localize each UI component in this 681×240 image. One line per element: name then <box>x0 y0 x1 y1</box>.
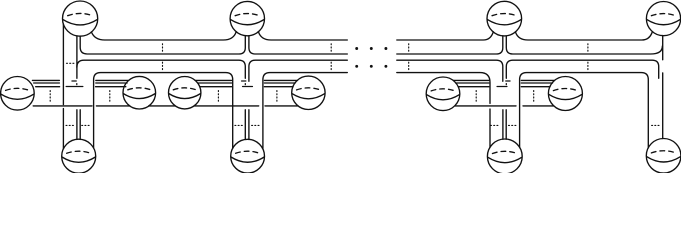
wire middle tube lines L1 of M1 <box>32 80 59 86</box>
dots hidden vertical at middle level x=533.7 <box>533 91 535 103</box>
dots bottom tube rim x=81.7 <box>82 124 91 126</box>
dots hidden vertical at middle level x=476.2 <box>475 91 477 103</box>
dots hidden vertical in T2 at x=587.9 <box>587 62 589 70</box>
sphere S1 <box>63 1 98 36</box>
dots hidden vertical in T1 at x=331.2 <box>330 44 332 53</box>
sphere M3 <box>169 77 201 109</box>
wire middle tube bottom line <box>33 105 554 107</box>
dash hidden line S3 neck small <box>506 80 510 82</box>
dots hidden vertical in T1 at x=408.7 <box>408 44 410 53</box>
wire middle tube lines L2 to M2 <box>96 80 129 86</box>
wire T2 top dots-S3 <box>397 60 503 81</box>
dots bottom tube rim x=251.6 <box>252 124 261 126</box>
wire vertical a' lower part <box>662 73 664 139</box>
dash hidden line S1 neck small <box>72 80 76 82</box>
dots hidden vertical in T1 at x=162.5 <box>162 44 164 53</box>
sphere B4 <box>646 139 681 174</box>
dot hidden neck S3 <box>505 84 507 85</box>
sphere M2 <box>123 76 156 109</box>
dots hidden vertical in T2 at x=408.7 <box>408 62 410 70</box>
dots hidden vertical at middle level x=50.2 <box>49 91 51 103</box>
dots hidden vertical in T2 at x=331.2 <box>330 62 332 70</box>
wire vertical b (S1 inner-left tube edge) <box>76 36 78 79</box>
sphere M6 <box>548 77 582 111</box>
center ellipsis dots <box>355 47 387 68</box>
wire T2 underside right block + B3 left tube edge <box>397 73 490 148</box>
wire B2 inner tube pair <box>245 110 249 140</box>
wire T2 top S1-S2 <box>77 60 245 78</box>
sphere B1 <box>62 139 96 173</box>
dots bottom tube rim x=651.6 <box>652 124 660 126</box>
dots bottom tube rim x=66.0 <box>66 124 75 126</box>
wire middle tube lines L6 to M6 <box>521 80 554 86</box>
wire B1 inner tube pair <box>77 110 80 140</box>
wire middle tube lines L3 of M3 <box>195 80 231 86</box>
wire T1 bottom dots-S3 <box>397 36 503 54</box>
sphere S3 <box>487 1 522 36</box>
wire T2 top S2-dots <box>249 60 347 81</box>
sphere M4 <box>292 76 325 109</box>
sphere B2 <box>231 139 265 173</box>
wire capsule3 left side + top + right corner down to B4 <box>520 73 649 148</box>
dash hidden line S1 neck wide <box>66 86 83 88</box>
dots hidden vertical at middle level x=218.4 <box>217 91 219 103</box>
dash hidden line S2 neck small <box>242 80 246 82</box>
wire T1 top S1-S2 <box>91 32 236 40</box>
dash hidden line S3 neck wide <box>497 86 507 88</box>
wire T1 bottom S3-S4 <box>506 36 662 54</box>
dot hidden neck S1 <box>76 84 78 85</box>
wire T1 top S2-dots <box>258 32 347 40</box>
dots hidden T2 edge crossing S1 tube <box>67 62 75 64</box>
wire T2 top S3-S4 <box>506 60 658 78</box>
sphere B3 <box>487 139 522 174</box>
wire vertical a (S1 left tube edge down to B1) <box>62 24 64 148</box>
dots bottom tube rim x=490.5 <box>491 124 499 126</box>
wire capsule2 left side + top (T2 underside to dots gap) <box>263 73 347 149</box>
dash hidden line S2 neck wide <box>243 86 253 88</box>
sphere S4 <box>646 2 680 36</box>
dots bottom tube rim x=508.5 <box>509 124 517 126</box>
wire T1 bottom S2-dots <box>249 36 347 54</box>
dots hidden vertical at middle level x=109.8 <box>109 91 111 103</box>
wire T1 bottom S1-S2 (with neck corners) <box>80 36 245 54</box>
wire B3 inner tube pair <box>503 110 506 139</box>
dots bottom tube rim x=234.9 <box>235 124 243 126</box>
sphere S2 <box>230 1 264 35</box>
dots hidden vertical at middle level x=276.9 <box>276 91 278 103</box>
wire vertical a' (S4 bottom to B4 top) <box>662 36 664 60</box>
wire T1 top S3-S4 <box>515 32 652 40</box>
wire T1 top dots-S3 <box>397 32 494 40</box>
dots hidden vertical in T2 at x=162.5 <box>162 62 164 70</box>
wire middle tube lines L4 to M4 <box>264 80 297 86</box>
sphere M5 <box>426 77 460 111</box>
wire middle tube lines L5 of M5 <box>453 80 489 86</box>
wire vertical d (capsule1 left side down to B1) <box>94 73 233 148</box>
dot hidden neck S2 <box>244 84 246 85</box>
dots hidden vertical in T1 at x=587.9 <box>587 44 589 53</box>
sphere M1 <box>1 77 35 111</box>
